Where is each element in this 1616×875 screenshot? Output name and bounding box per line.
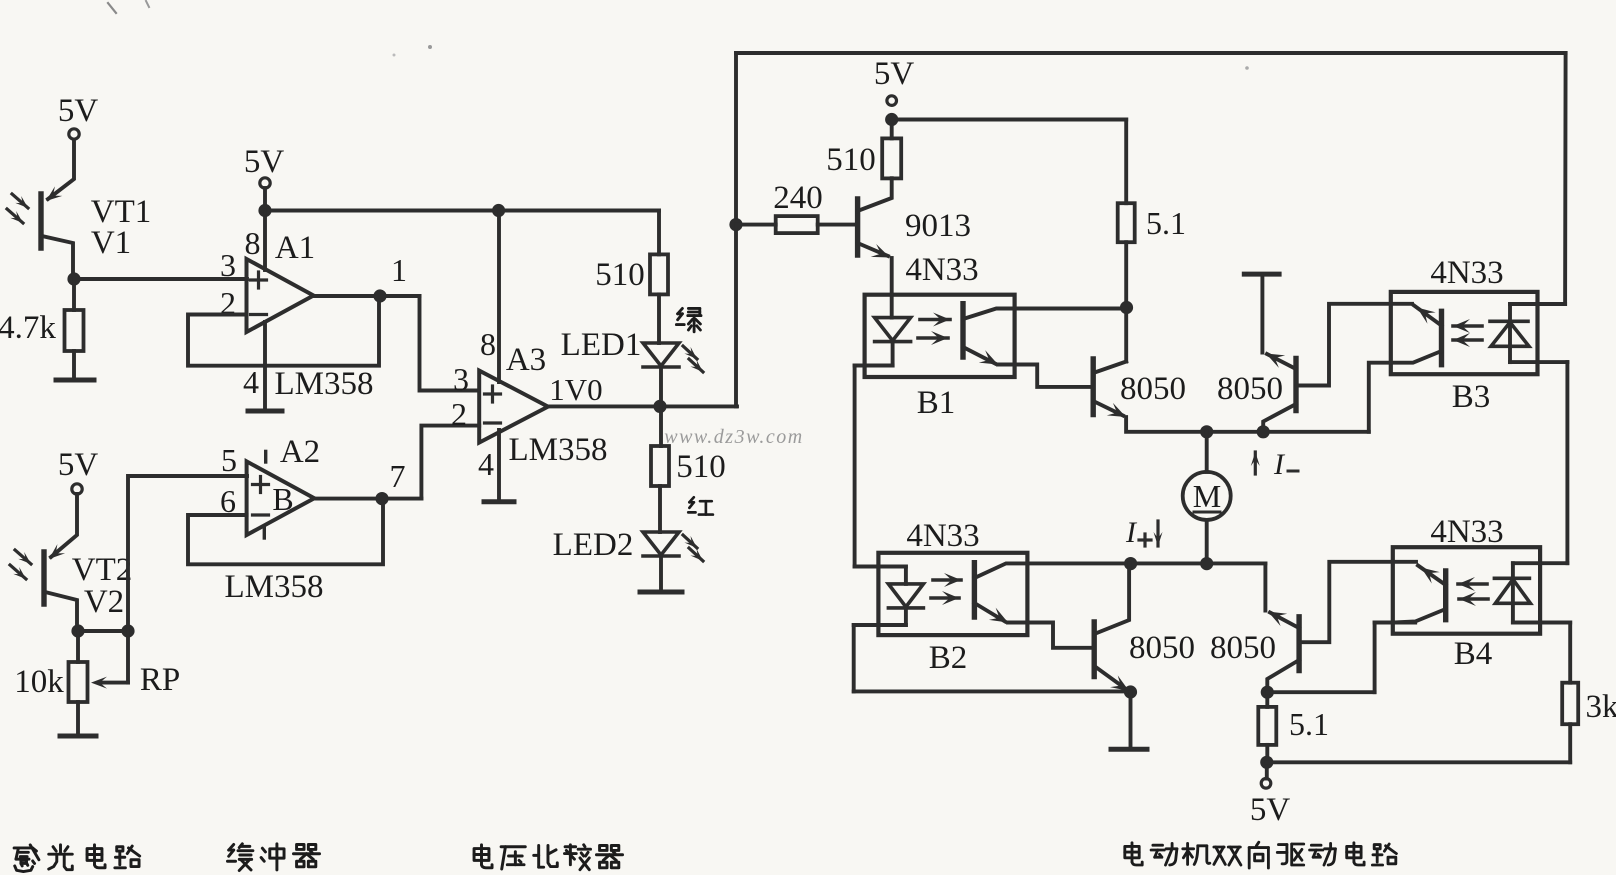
svg-text:LM358: LM358 bbox=[225, 569, 324, 605]
svg-text:LED1: LED1 bbox=[561, 327, 642, 363]
svg-text:B3: B3 bbox=[1452, 379, 1491, 415]
svg-text:LM358: LM358 bbox=[275, 366, 374, 402]
svg-text:LED2: LED2 bbox=[553, 527, 634, 563]
svg-text:A1: A1 bbox=[275, 230, 315, 266]
svg-text:8050: 8050 bbox=[1120, 371, 1186, 407]
svg-text:LM358: LM358 bbox=[509, 432, 608, 468]
svg-text:2: 2 bbox=[451, 396, 467, 432]
svg-text:8: 8 bbox=[245, 225, 261, 261]
svg-text:VT2: VT2 bbox=[72, 552, 133, 588]
svg-text:1V0: 1V0 bbox=[549, 372, 602, 407]
svg-text:3: 3 bbox=[220, 247, 236, 283]
svg-text:V2: V2 bbox=[84, 584, 124, 620]
svg-text:9013: 9013 bbox=[905, 208, 971, 244]
svg-text:240: 240 bbox=[773, 180, 823, 216]
svg-text:4: 4 bbox=[478, 446, 494, 482]
svg-text:3k: 3k bbox=[1586, 689, 1616, 725]
svg-text:A3: A3 bbox=[506, 342, 546, 378]
svg-text:8050: 8050 bbox=[1210, 630, 1276, 666]
svg-text:B2: B2 bbox=[929, 640, 968, 676]
svg-text:B1: B1 bbox=[917, 385, 956, 421]
svg-text:510: 510 bbox=[595, 257, 645, 293]
svg-text:B: B bbox=[272, 481, 293, 517]
svg-text:4N33: 4N33 bbox=[905, 252, 978, 288]
svg-text:4N33: 4N33 bbox=[1430, 514, 1503, 550]
svg-text:8050: 8050 bbox=[1129, 630, 1195, 666]
svg-text:5V: 5V bbox=[1250, 792, 1291, 828]
svg-text:10k: 10k bbox=[14, 664, 64, 700]
svg-text:www.dz3w.com: www.dz3w.com bbox=[664, 426, 804, 448]
svg-text:7: 7 bbox=[390, 458, 406, 494]
svg-text:510: 510 bbox=[676, 449, 726, 485]
svg-text:5.1: 5.1 bbox=[1146, 205, 1186, 241]
svg-text:3: 3 bbox=[453, 361, 469, 397]
svg-text:4N33: 4N33 bbox=[1430, 255, 1503, 291]
svg-text:A2: A2 bbox=[280, 434, 320, 470]
svg-text:5: 5 bbox=[221, 442, 237, 478]
svg-text:8050: 8050 bbox=[1217, 371, 1283, 407]
svg-text:M: M bbox=[1193, 478, 1221, 514]
svg-text:1: 1 bbox=[391, 252, 407, 288]
svg-text:V1: V1 bbox=[91, 225, 131, 261]
svg-text:B4: B4 bbox=[1454, 636, 1493, 672]
svg-text:5.1: 5.1 bbox=[1289, 706, 1329, 742]
svg-text:510: 510 bbox=[826, 142, 876, 178]
svg-text:5V: 5V bbox=[244, 144, 285, 180]
svg-text:4N33: 4N33 bbox=[906, 518, 979, 554]
svg-text:8: 8 bbox=[480, 326, 496, 362]
svg-text:5V: 5V bbox=[58, 93, 99, 129]
svg-text:5V: 5V bbox=[874, 56, 915, 92]
svg-text:RP: RP bbox=[140, 662, 180, 698]
svg-text:4: 4 bbox=[243, 364, 259, 400]
svg-text:4.7k: 4.7k bbox=[0, 310, 56, 346]
svg-text:5V: 5V bbox=[58, 447, 99, 483]
